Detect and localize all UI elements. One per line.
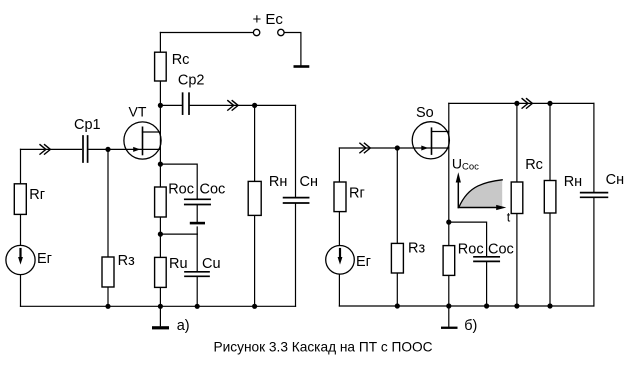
svg-text:б): б) — [464, 318, 477, 334]
wire: Cn drop lower right — [593, 198, 595, 306]
node: source junction right — [446, 220, 451, 225]
output chevron marks — [228, 101, 238, 111]
wire: Cu upper lead — [196, 234, 198, 271]
wire: top rail to +Ec — [160, 32, 253, 34]
source Eg — [6, 245, 35, 274]
resistor Ru — [155, 257, 167, 287]
wire: main vertical (drain-Rc-source chain) — [159, 33, 161, 307]
resistor Rg — [14, 184, 26, 215]
wire: top rail right — [449, 102, 594, 104]
wire: Rc drop — [516, 103, 518, 306]
capacitor Cn — [284, 198, 309, 203]
svg-text:Cн: Cн — [606, 172, 624, 188]
svg-text:Рисунок 3.3 Каскад на ПТ с ПОО: Рисунок 3.3 Каскад на ПТ с ПООС — [214, 340, 433, 355]
svg-text:Roc: Roc — [168, 182, 194, 198]
node: gate junction — [395, 145, 400, 150]
wire: Cn drop upper — [295, 105, 297, 197]
wire: Cu lower lead — [196, 277, 198, 307]
wire: Cn drop upper right — [593, 103, 595, 192]
wire: input horizontal — [339, 147, 448, 149]
capacitor Coc right — [474, 257, 499, 262]
wire: mid junction to Cu — [160, 233, 197, 235]
svg-text:Coc: Coc — [462, 162, 479, 173]
transistor So — [412, 122, 449, 159]
svg-text:VT: VT — [129, 104, 147, 120]
terminal circle 1 — [253, 29, 259, 35]
input chevron marks — [360, 143, 370, 153]
capacitor Cn right — [581, 193, 608, 198]
svg-text:Roc: Roc — [458, 242, 484, 258]
node: top Rn — [547, 101, 552, 106]
wire: Coc lower lead — [196, 205, 198, 221]
wire: Cp2 to Cn top — [190, 104, 295, 106]
resistor Rg right — [334, 182, 346, 212]
svg-text:Rн: Rн — [564, 174, 582, 190]
node: top Rc — [514, 101, 519, 106]
svg-text:Ru: Ru — [169, 256, 188, 272]
svg-text:Rз: Rз — [408, 241, 425, 257]
shaded area — [459, 180, 502, 207]
wire: from terminal to ground — [284, 33, 301, 66]
node: bottom Cu — [195, 304, 200, 309]
wire: bottom rail right — [339, 305, 594, 307]
wire: R3 drop right — [396, 148, 398, 306]
x axis — [458, 207, 498, 209]
wire: source junction to Coc — [160, 164, 197, 199]
wire: Cp1 to gate (continues to source line end) — [89, 148, 160, 150]
capacitor Cp1 — [83, 136, 88, 162]
top chevron marks — [522, 99, 532, 109]
svg-text:Rг: Rг — [29, 187, 45, 203]
svg-text:Rc: Rc — [525, 157, 543, 173]
ground left circuit — [159, 306, 161, 326]
svg-text:Eг: Eг — [37, 251, 52, 267]
capacitor Cu — [185, 272, 209, 277]
resistor R3 right — [391, 243, 403, 273]
graph Ucoc vs t — [456, 172, 507, 210]
node: bottom Rc right — [514, 303, 519, 308]
terminal circle 2 — [278, 29, 284, 35]
wire: Rn drop — [549, 103, 551, 306]
resistor Rn — [248, 181, 261, 215]
svg-text:Cp1: Cp1 — [74, 117, 101, 133]
svg-text:So: So — [416, 105, 434, 121]
wire: left rail vertical — [20, 149, 22, 306]
source Eg right — [326, 245, 355, 274]
node: bottom R3 right — [395, 303, 400, 308]
node: bottom Ru — [158, 304, 163, 309]
svg-text:U: U — [452, 156, 462, 172]
wire: main vertical right — [448, 103, 450, 306]
ground bar top right — [294, 65, 310, 68]
wire: source junction to Coc right — [449, 222, 487, 256]
input chevron marks — [40, 145, 50, 155]
resistor Rc — [155, 52, 167, 81]
svg-text:а): а) — [177, 318, 190, 334]
node: junction after Cp1 — [105, 147, 110, 152]
node: bottom R3 — [105, 304, 110, 309]
svg-text:Rз: Rз — [118, 253, 135, 269]
node: output junction — [252, 103, 257, 108]
svg-text:t: t — [507, 210, 511, 224]
wire: input top horizontal to Cp1 — [21, 148, 82, 150]
svg-text:+ Ec: + Ec — [253, 11, 284, 28]
wire: R3 drop — [107, 149, 109, 306]
svg-text:Eг: Eг — [356, 254, 371, 270]
wire: Coc lower lead right — [486, 262, 488, 306]
wire: Cn drop lower — [295, 204, 297, 307]
resistor Roc right — [443, 246, 455, 276]
node: bottom Coc right — [484, 303, 489, 308]
wire: left rail vertical — [338, 148, 340, 306]
capacitor Coc — [185, 199, 210, 204]
resistor Rc right — [511, 182, 523, 214]
svg-text:Coc: Coc — [200, 182, 226, 198]
capacitor Cp2 — [183, 93, 189, 114]
node: bottom Rn — [252, 304, 257, 309]
svg-text:Rг: Rг — [349, 186, 365, 202]
y axis — [457, 180, 459, 208]
node: mid junction — [158, 232, 163, 237]
svg-text:Cн: Cн — [300, 174, 318, 190]
node: bottom source right — [446, 303, 451, 308]
svg-text:Rc: Rc — [172, 52, 190, 68]
node: bottom Rn right — [547, 303, 552, 308]
wire: dash to mid junction — [196, 227, 198, 234]
polarity bar below Coc — [190, 222, 205, 225]
wire: bottom rail — [21, 305, 296, 307]
node: source junction — [158, 162, 163, 167]
wire: Rn drop — [254, 105, 256, 306]
wire: output horizontal — [160, 104, 181, 106]
resistor Rn right — [544, 181, 556, 214]
node: drain junction — [158, 103, 163, 108]
transistor VT — [124, 122, 161, 159]
resistor Roc — [155, 187, 167, 217]
resistor R3 — [102, 257, 114, 287]
ground right circuit — [448, 306, 450, 326]
svg-text:Cp2: Cp2 — [178, 73, 205, 89]
svg-text:Cu: Cu — [202, 256, 221, 272]
curve — [459, 180, 502, 207]
svg-text:Rн: Rн — [269, 174, 287, 190]
svg-text:Coc: Coc — [488, 242, 514, 258]
